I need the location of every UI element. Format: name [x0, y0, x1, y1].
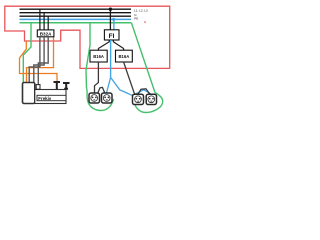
B16A left pin stub top — [97, 48, 99, 50]
wire N to FI blue — [113, 19, 115, 30]
svg-text:PE: PE — [134, 17, 138, 21]
bus L2 — [20, 12, 132, 14]
wire L2 tap to B32A — [43, 13, 45, 31]
wire L1 tap to B32A — [39, 9, 41, 30]
socket outlet 1 — [89, 93, 100, 103]
bus L3 — [20, 15, 132, 17]
RCD FI — [104, 30, 119, 40]
B16A right pin stub top — [123, 48, 125, 50]
socket outlet 2 — [102, 93, 113, 103]
breaker B16A right — [116, 50, 133, 62]
wire orange B to converter — [27, 38, 54, 83]
FI bottom pin stubs — [108, 40, 110, 42]
wire PE loop right sockets green — [134, 93, 162, 113]
wire PE diagonal to right sockets green — [131, 23, 155, 93]
svg-text:B16A: B16A — [93, 54, 104, 59]
svg-text:Frekiv: Frekiv — [38, 96, 51, 101]
wire N out of FI blue down to split — [110, 40, 112, 77]
wire PE loop left sockets green — [87, 88, 114, 111]
wire L1 to FI — [109, 9, 111, 30]
svg-text:B32A: B32A — [40, 31, 52, 36]
wire FI to B16A right — [113, 42, 123, 49]
wire PE drop to left sockets green — [86, 23, 90, 88]
bus PE green — [20, 22, 132, 24]
node boundary red loop — [5, 6, 170, 68]
wire blue branch to right socket pair — [111, 77, 151, 95]
frequency converter body — [35, 90, 66, 104]
plug connector 2 — [54, 82, 61, 89]
wire phase arch left pair — [98, 87, 105, 92]
svg-text:L1, L2, L3: L1, L2, L3 — [134, 9, 148, 13]
wire L3 tap to B32A — [47, 16, 49, 30]
wire blue branch to left socket pair — [107, 77, 111, 92]
label strip Frekiv — [37, 95, 66, 101]
bus L1 — [20, 8, 132, 10]
wire gray phase 3 staircase — [38, 37, 48, 85]
wire orange A to plug — [20, 42, 58, 82]
junction dot on L1 — [109, 8, 112, 11]
wire FI to B16A left — [98, 42, 109, 49]
wire PE drop to Frekv green — [23, 23, 31, 83]
wire gray phase 1 staircase — [29, 37, 40, 83]
wire phase arch right pair — [138, 89, 150, 94]
red mark — [144, 22, 146, 23]
svg-text:FI: FI — [109, 33, 115, 40]
wire B16A left down to left sockets — [95, 62, 99, 93]
junction dot on N — [112, 18, 115, 21]
terminal block small — [36, 85, 40, 90]
socket outlet 4 — [146, 94, 156, 104]
wire B16A right diagonal to right sockets — [124, 62, 135, 94]
plug connector 3 — [63, 83, 70, 89]
bus N blue — [20, 18, 132, 20]
breaker B32A — [37, 30, 54, 37]
wire gray phase 2 staircase — [34, 37, 44, 83]
frequency converter housing — [23, 83, 35, 104]
socket outlet 3 — [133, 94, 144, 104]
svg-text:B16A: B16A — [119, 54, 130, 59]
breaker B16A left — [90, 50, 107, 62]
